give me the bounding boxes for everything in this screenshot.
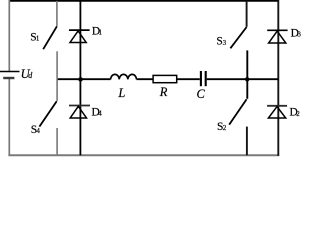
svg-text:4: 4 — [98, 109, 102, 117]
svg-text:C: C — [197, 87, 206, 101]
svg-text:1: 1 — [99, 29, 103, 37]
svg-text:4: 4 — [36, 127, 40, 135]
svg-text:1: 1 — [36, 35, 40, 43]
svg-text:2: 2 — [223, 124, 227, 132]
svg-text:3: 3 — [223, 39, 227, 47]
svg-text:2: 2 — [296, 110, 300, 118]
svg-text:3: 3 — [297, 31, 301, 39]
svg-text:L: L — [117, 86, 125, 100]
svg-text:R: R — [159, 85, 168, 99]
